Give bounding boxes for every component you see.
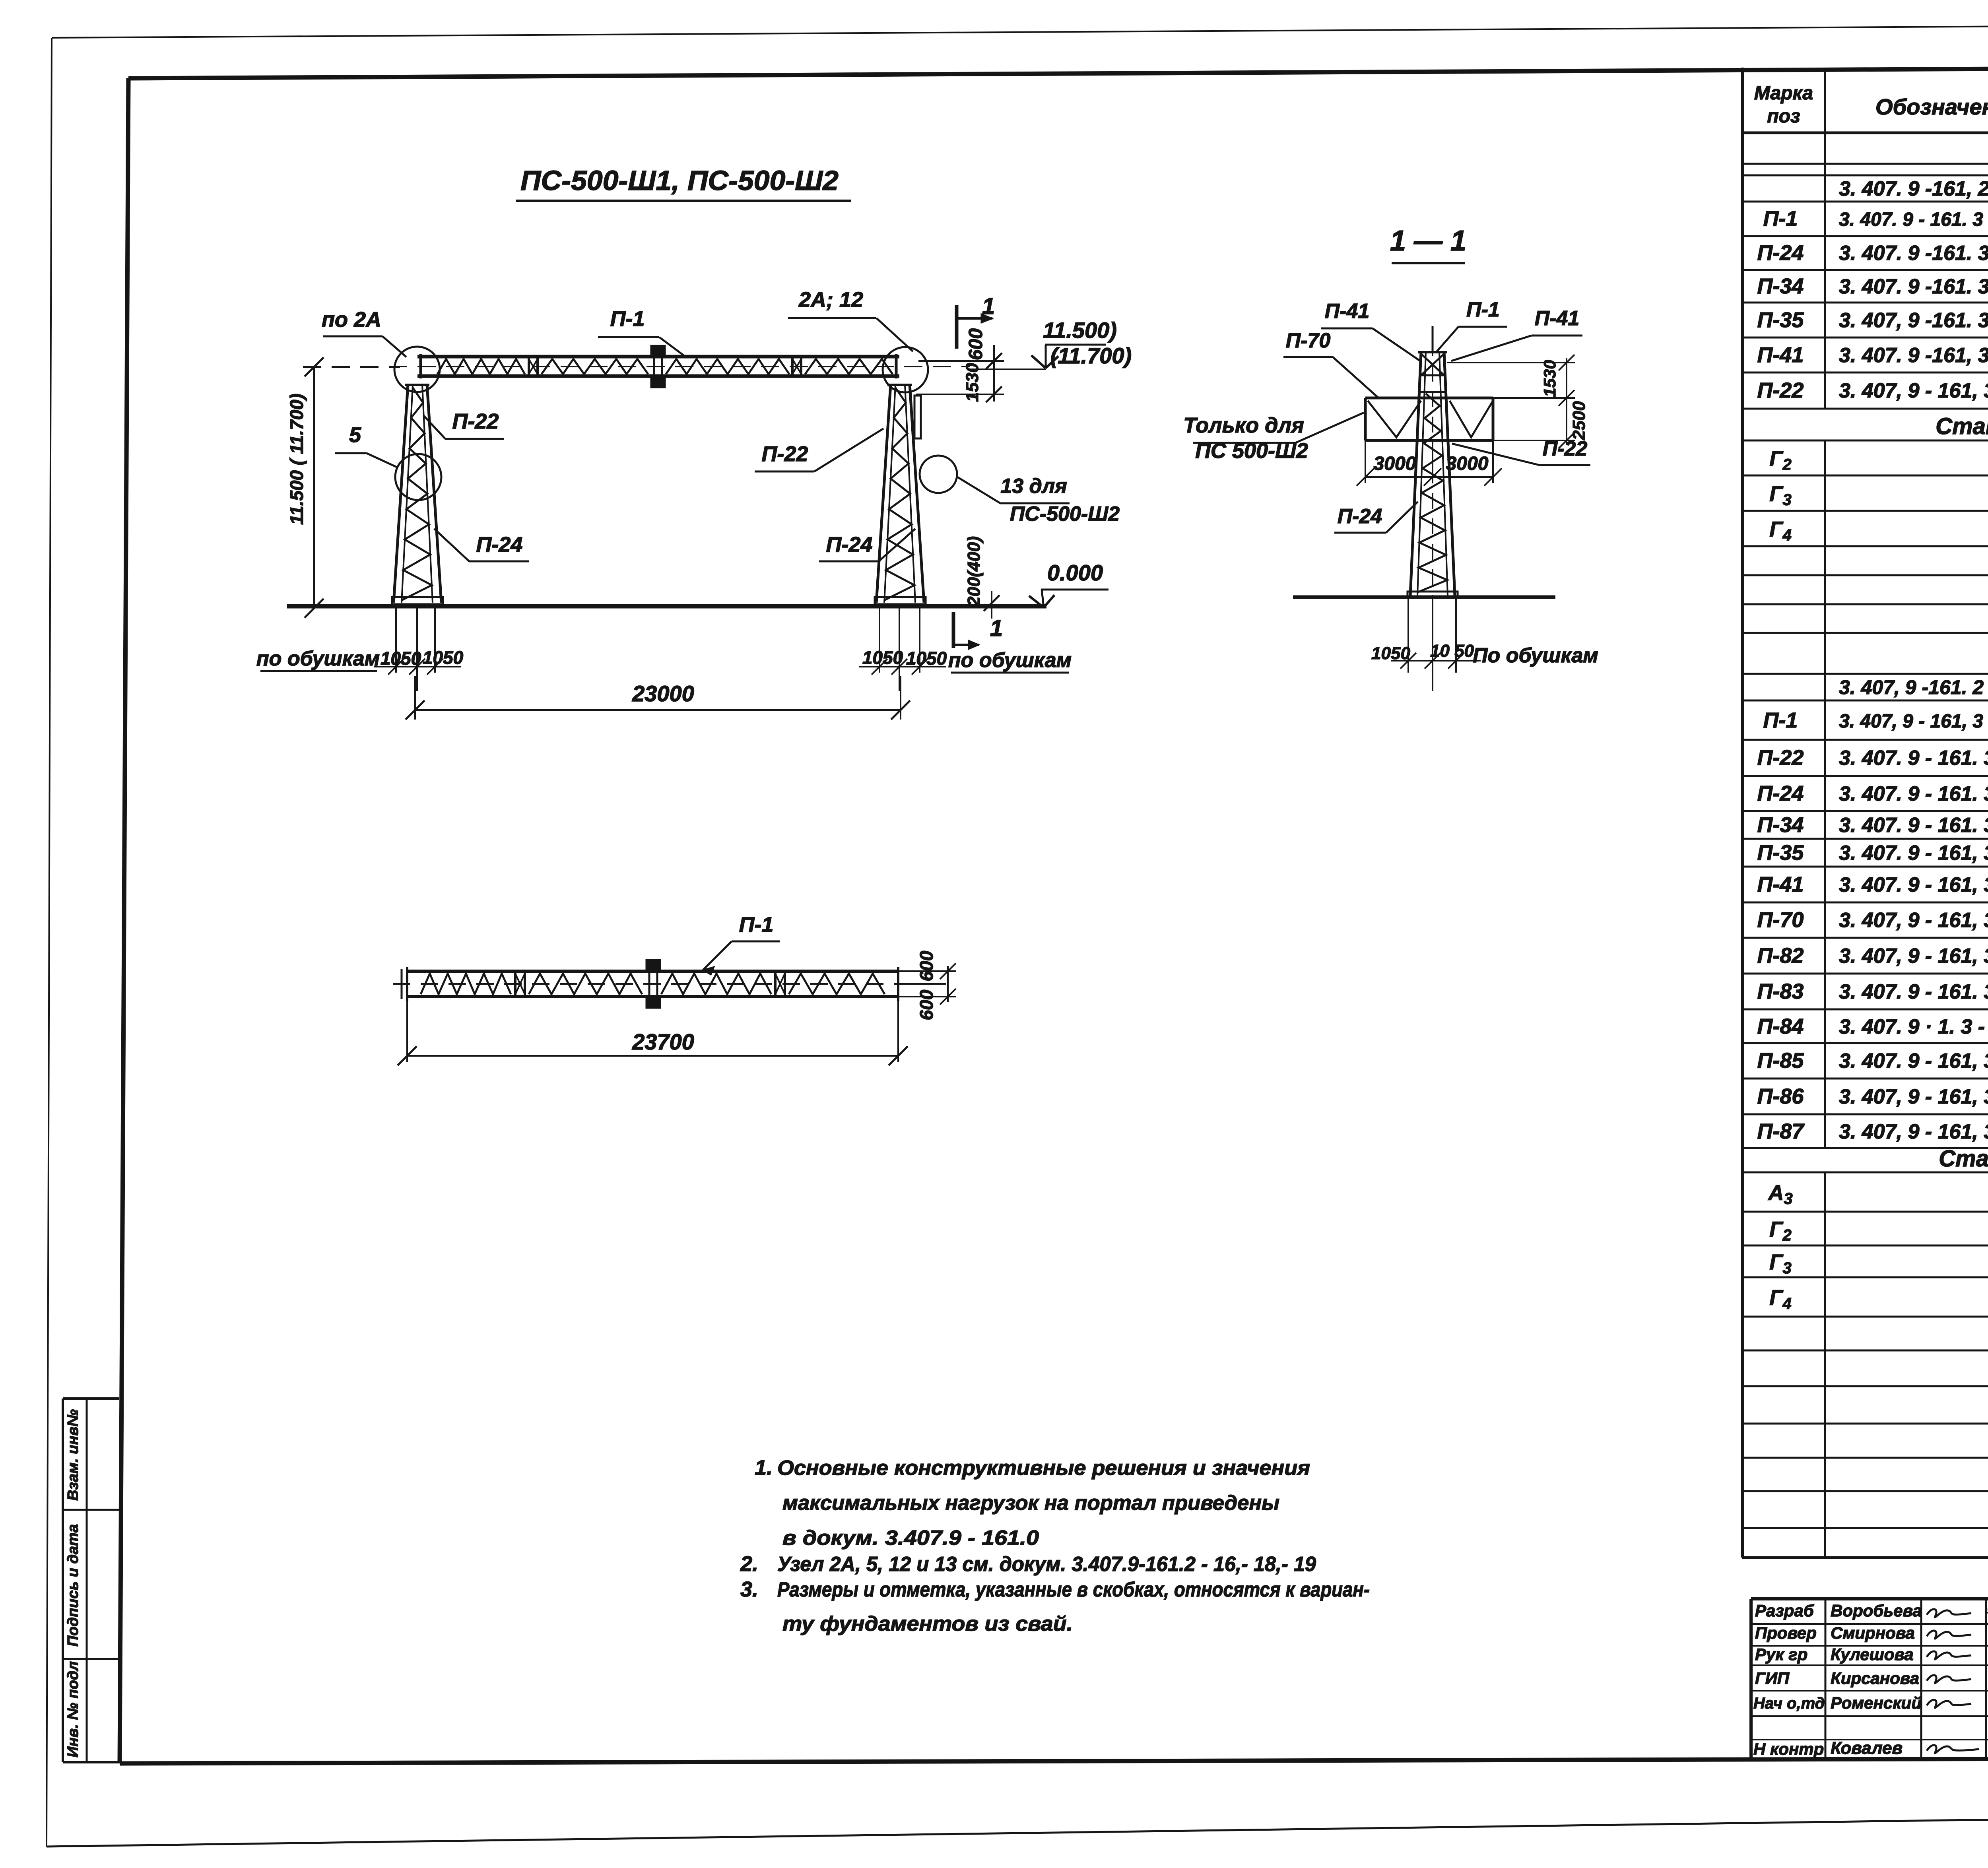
svg-text:13 для: 13 для bbox=[1000, 475, 1067, 498]
svg-text:0.000: 0.000 bbox=[1047, 560, 1103, 585]
traverse end post left bbox=[419, 354, 422, 378]
right tower left chord inner bbox=[884, 385, 895, 603]
svg-text:1: 1 bbox=[982, 293, 995, 319]
svg-text:П-41: П-41 bbox=[1757, 873, 1804, 896]
svg-text:3. 407. 9 - 161. 3 - 1КМ Л1,: 3. 407. 9 - 161. 3 - 1КМ Л1,2 bbox=[1839, 209, 1988, 230]
beam plan web zigzag 2 bbox=[529, 974, 642, 994]
svg-text:3. 407, 9 - 161, 3 - 8 КМ: 3. 407, 9 - 161, 3 - 8 КМ bbox=[1839, 379, 1988, 402]
svg-text:П-34: П-34 bbox=[1757, 813, 1804, 837]
svg-text:1050: 1050 bbox=[1371, 644, 1410, 663]
beam plan left end post bbox=[406, 967, 408, 1001]
svg-text:10 50: 10 50 bbox=[1430, 641, 1474, 661]
table vertical line col0 left edge bbox=[1741, 68, 1744, 1558]
beam plan double post A bbox=[514, 970, 516, 998]
svg-text:Г3: Г3 bbox=[1769, 482, 1791, 509]
column P-1 stub above bbox=[1432, 326, 1434, 352]
right tower base plate bbox=[875, 597, 926, 604]
svg-text:П-41: П-41 bbox=[1757, 343, 1804, 367]
traverse double post A bbox=[528, 355, 530, 378]
svg-text:П-22: П-22 bbox=[1543, 437, 1588, 460]
traverse end post right bbox=[895, 354, 898, 378]
screen P-70 top chord bbox=[1365, 397, 1493, 400]
svg-text:1 — 1: 1 — 1 bbox=[1390, 225, 1466, 257]
svg-text:А3: А3 bbox=[1767, 1181, 1792, 1208]
svg-text:3. 407, 9 - 161, 3 - 17КМ: 3. 407, 9 - 161, 3 - 17КМ bbox=[1839, 1085, 1988, 1108]
svg-text:Рук гр: Рук гр bbox=[1755, 1645, 1807, 1664]
node circle 2A right bbox=[883, 347, 928, 392]
svg-text:3. 407, 9 -161. 2 - 14 - 01: 3. 407, 9 -161. 2 - 14 - 01 bbox=[1839, 676, 1988, 698]
svg-text:Марка: Марка bbox=[1754, 83, 1813, 104]
svg-text:2.: 2. bbox=[740, 1552, 758, 1576]
svg-text:Воробьева: Воробьева bbox=[1831, 1601, 1922, 1620]
column base plate section bbox=[1408, 592, 1458, 597]
ground line section bbox=[1293, 596, 1555, 599]
svg-text:(11.700): (11.700) bbox=[1050, 343, 1132, 368]
left stamp box bbox=[63, 1397, 119, 1400]
svg-text:максимальных нагрузок на пор: максимальных нагрузок на портал приведен… bbox=[782, 1492, 1279, 1515]
dim 3000 3000 extension lines bbox=[1365, 440, 1366, 483]
left tower right chord inner bbox=[422, 385, 433, 603]
left tower footing projection lines bbox=[395, 604, 397, 673]
svg-text:1.: 1. bbox=[755, 1456, 773, 1480]
svg-text:3. 407, 9 - 161, 3 - -1КМ Л1: 3. 407, 9 - 161, 3 - -1КМ Л1,2 bbox=[1839, 711, 1988, 732]
traverse axis dashed line bbox=[303, 366, 970, 367]
right tower footing projection lines bbox=[879, 604, 880, 673]
svg-text:3000: 3000 bbox=[1374, 453, 1416, 474]
beam right dim vertical bbox=[947, 966, 949, 1002]
screen P-70 left end post bbox=[1364, 398, 1367, 440]
screen P-70 right end post bbox=[1492, 398, 1495, 440]
svg-text:3. 407. 9 -161, 2 - 14: 3. 407. 9 -161, 2 - 14 bbox=[1839, 177, 1988, 200]
beam plan centre splice bbox=[646, 960, 660, 970]
svg-text:П-22: П-22 bbox=[1757, 746, 1804, 770]
svg-text:П-22: П-22 bbox=[1757, 378, 1804, 402]
left tower cap bbox=[405, 384, 429, 386]
section mark 1 top bbox=[955, 305, 959, 349]
svg-text:23700: 23700 bbox=[632, 1029, 694, 1054]
extension lines right of traverse bbox=[918, 360, 1004, 362]
beam plan top chord bbox=[407, 970, 898, 973]
svg-text:3.: 3. bbox=[740, 1577, 758, 1601]
svg-text:П-22: П-22 bbox=[762, 442, 808, 466]
svg-text:200(400): 200(400) bbox=[964, 536, 984, 607]
svg-text:П-1: П-1 bbox=[1763, 708, 1798, 732]
svg-text:П-41: П-41 bbox=[1325, 300, 1370, 323]
column 1-1 top X brace bbox=[1421, 354, 1444, 375]
svg-text:П-24: П-24 bbox=[476, 533, 523, 557]
left tower left chord outer bbox=[394, 385, 408, 603]
svg-text:в докум. 3.407.9 - 161.0: в докум. 3.407.9 - 161.0 bbox=[782, 1527, 1039, 1550]
right tower cap bbox=[887, 384, 912, 386]
svg-text:600: 600 bbox=[916, 950, 937, 981]
traverse double post B bbox=[791, 355, 794, 378]
section footing projection lines bbox=[1408, 597, 1409, 673]
section right dim vertical bbox=[1566, 358, 1567, 445]
right tower left chord outer bbox=[876, 385, 891, 603]
svg-text:23000: 23000 bbox=[632, 681, 694, 706]
dim line po obushkam right bbox=[859, 666, 946, 667]
beam right dim extensions bbox=[898, 970, 956, 972]
column 1-1 right chord bbox=[1444, 352, 1455, 596]
svg-text:5: 5 bbox=[349, 423, 361, 447]
svg-text:П-24: П-24 bbox=[1338, 505, 1382, 528]
outer sheet border bbox=[52, 23, 1988, 38]
title block signature verticals bbox=[1825, 1599, 1827, 1759]
right tower right chord inner bbox=[905, 385, 915, 603]
node circle 13 right tower bbox=[920, 456, 957, 493]
svg-text:Узел 2А, 5, 12 и 13 см. докум: Узел 2А, 5, 12 и 13 см. докум. 3.407.9-1… bbox=[777, 1553, 1316, 1576]
svg-text:по обушкам: по обушкам bbox=[256, 647, 380, 670]
svg-text:3. 407, 9 - 161, 3 - 17КМ: 3. 407, 9 - 161, 3 - 17КМ bbox=[1839, 909, 1988, 932]
title block signature row lines bbox=[1751, 1623, 1988, 1625]
dim line 23000 bbox=[415, 709, 901, 711]
svg-text:По обушкам: По обушкам bbox=[1473, 644, 1598, 667]
traverse P-1 top chord bbox=[417, 355, 899, 359]
left tower right chord outer bbox=[427, 385, 441, 603]
section right extension lines bbox=[1447, 362, 1575, 363]
svg-text:Г2: Г2 bbox=[1769, 447, 1791, 473]
height dim line left bbox=[313, 367, 315, 608]
traverse web zigzag panel 4 bbox=[805, 359, 893, 374]
svg-text:Взам. инв№: Взам. инв№ bbox=[65, 1409, 82, 1501]
svg-text:600: 600 bbox=[965, 328, 986, 360]
svg-text:1530: 1530 bbox=[1540, 360, 1559, 397]
svg-text:Н контр: Н контр bbox=[1753, 1740, 1824, 1758]
svg-text:П-1: П-1 bbox=[1466, 298, 1500, 321]
svg-text:3. 407, 9 - 161, 3 - ' 17КМ: 3. 407, 9 - 161, 3 - ' 17КМ bbox=[1839, 945, 1988, 968]
right tower lattice bbox=[884, 388, 914, 600]
svg-text:3. 407. 9 - 161, 3 - 13 КМ: 3. 407. 9 - 161, 3 - 13 КМ bbox=[1839, 873, 1988, 896]
column 1-1 left chord bbox=[1410, 352, 1421, 596]
svg-text:11.500 ( 11.700): 11.500 ( 11.700) bbox=[286, 394, 307, 525]
column 1-1 cap bbox=[1418, 351, 1447, 353]
svg-text:Кирсанова: Кирсанова bbox=[1831, 1669, 1919, 1688]
node circle 5 left tower bbox=[395, 454, 441, 500]
table vertical line col1 bbox=[1824, 68, 1826, 409]
svg-text:ПС-500-Ш1, ПС-500-Ш2: ПС-500-Ш1, ПС-500-Ш2 bbox=[520, 165, 839, 196]
svg-text:3. 407. 9 - 161. 3 - 8 КМ: 3. 407. 9 - 161. 3 - 8 КМ bbox=[1839, 747, 1988, 770]
svg-text:ГИП: ГИП bbox=[1755, 1669, 1790, 1688]
svg-text:Смирнова: Смирнова bbox=[1831, 1624, 1915, 1642]
section dim line 1050 bbox=[1391, 660, 1481, 661]
column 1-1 right chord inner bbox=[1439, 352, 1448, 596]
svg-text:Кулешова: Кулешова bbox=[1831, 1645, 1914, 1664]
svg-text:П-84: П-84 bbox=[1757, 1015, 1804, 1038]
svg-text:Г2: Г2 bbox=[1769, 1218, 1791, 1244]
svg-text:1050: 1050 bbox=[423, 647, 464, 668]
beam plan web zigzag 1 bbox=[421, 974, 511, 994]
svg-text:Стандартные изделия: Стандартные изделия bbox=[1939, 1146, 1988, 1172]
traverse web zigzag panel 3 bbox=[666, 359, 789, 374]
dim line 23700 bbox=[407, 1055, 898, 1057]
traverse web zigzag panel 1 bbox=[437, 359, 525, 374]
svg-text:11.500): 11.500) bbox=[1043, 318, 1117, 343]
section mark 1 bottom bbox=[952, 612, 955, 648]
svg-text:П-87: П-87 bbox=[1757, 1119, 1805, 1143]
svg-text:1050: 1050 bbox=[381, 648, 421, 669]
svg-text:П-1: П-1 bbox=[1763, 207, 1798, 231]
beam plan web zigzag 3 bbox=[661, 974, 771, 994]
title block outline bbox=[1751, 1597, 1988, 1600]
svg-text:3. 407. 9 - 161. 3 - 10 КМ: 3. 407. 9 - 161. 3 - 10 КМ bbox=[1839, 782, 1988, 805]
svg-text:П-35: П-35 bbox=[1757, 841, 1804, 865]
column 1-1 lattice bbox=[1417, 394, 1447, 592]
svg-text:П-24: П-24 bbox=[826, 533, 873, 557]
svg-text:3. 407. 9 - 161, 3 - 17КМ: 3. 407. 9 - 161, 3 - 17КМ bbox=[1839, 1049, 1988, 1073]
svg-text:поз: поз bbox=[1767, 106, 1800, 127]
svg-text:3. 407. 9 -161. 3 - 13 КМ: 3. 407. 9 -161. 3 - 13 КМ bbox=[1839, 275, 1988, 298]
svg-text:П-1: П-1 bbox=[739, 913, 774, 937]
table horizontal lines bbox=[1742, 132, 1988, 134]
ground line bbox=[287, 604, 1046, 609]
svg-text:П-70: П-70 bbox=[1757, 908, 1804, 932]
beam plan axis dashed bbox=[393, 983, 911, 985]
column 1-1 left chord inner bbox=[1417, 352, 1426, 596]
svg-text:П-41: П-41 bbox=[1535, 307, 1580, 330]
svg-text:Стандартные изделия: Стандартные изделия bbox=[1936, 413, 1988, 439]
svg-text:П-24: П-24 bbox=[1757, 241, 1804, 265]
svg-text:П-85: П-85 bbox=[1757, 1049, 1804, 1073]
left tower lattice bbox=[402, 388, 432, 600]
screen P-70 left diagonals bbox=[1368, 401, 1421, 437]
svg-text:Провер: Провер bbox=[1755, 1624, 1817, 1642]
svg-text:П-34: П-34 bbox=[1757, 274, 1804, 298]
right tower bracket node 13 bbox=[914, 396, 921, 438]
svg-text:600: 600 bbox=[916, 989, 937, 1020]
left tower base plate bbox=[392, 597, 443, 604]
screen P-70 bottom chord bbox=[1365, 439, 1493, 442]
svg-text:1: 1 bbox=[990, 615, 1003, 641]
svg-text:П-70: П-70 bbox=[1286, 329, 1331, 352]
svg-text:3. 407. 9 - 161. 3 - 17КМ: 3. 407. 9 - 161. 3 - 17КМ bbox=[1839, 980, 1988, 1003]
svg-text:3. 407. 9 -161, 3 - 13 КМ: 3. 407. 9 -161, 3 - 13 КМ bbox=[1839, 344, 1988, 367]
svg-text:Нач о,тд: Нач о,тд bbox=[1753, 1695, 1825, 1712]
svg-text:3. 407. 9 - 161, 3 - 13 КМ: 3. 407. 9 - 161, 3 - 13 КМ bbox=[1839, 842, 1988, 865]
svg-text:Инв. № подл: Инв. № подл bbox=[65, 1661, 82, 1757]
dim vertical 600-1530 bbox=[993, 345, 995, 402]
beam plan right end post bbox=[897, 967, 899, 1001]
beam plan web zigzag 4 bbox=[789, 974, 885, 994]
svg-text:Г4: Г4 bbox=[1769, 518, 1791, 544]
beam plan bottom chord bbox=[407, 995, 898, 998]
node circle 2A left bbox=[394, 347, 440, 392]
svg-text:3. 407. 9 · 1. 3 - 17КМ: 3. 407. 9 · 1. 3 - 17КМ bbox=[1839, 1015, 1988, 1038]
svg-text:Г4: Г4 bbox=[1769, 1286, 1791, 1313]
svg-text:ПС 500-Ш2: ПС 500-Ш2 bbox=[1195, 439, 1308, 463]
dim line po obushkam left bbox=[374, 666, 461, 667]
dim 23700 extension lines bbox=[406, 1000, 408, 1062]
svg-text:П-82: П-82 bbox=[1757, 944, 1804, 968]
svg-text:Подпись и дата: Подпись и дата bbox=[65, 1524, 82, 1647]
dim line 3000 3000 bbox=[1365, 476, 1493, 478]
svg-text:Только для: Только для bbox=[1183, 413, 1304, 437]
svg-text:3. 407. 9 -161. 3 - 10 КМ: 3. 407. 9 -161. 3 - 10 КМ bbox=[1839, 242, 1988, 265]
svg-text:П-86: П-86 bbox=[1757, 1084, 1804, 1108]
screen P-70 right diagonals bbox=[1450, 401, 1493, 437]
svg-text:П-22: П-22 bbox=[452, 409, 499, 433]
traverse P-1 bottom chord bbox=[417, 374, 899, 378]
traverse centre splice plates bbox=[651, 346, 665, 355]
svg-text:Разраб: Разраб bbox=[1755, 1601, 1814, 1620]
svg-text:П-83: П-83 bbox=[1757, 980, 1804, 1003]
svg-text:П-24: П-24 bbox=[1757, 782, 1804, 805]
svg-text:2500: 2500 bbox=[1569, 401, 1589, 440]
traverse web zigzag panel 2 bbox=[542, 359, 648, 374]
svg-text:Роменский: Роменский bbox=[1831, 1693, 1922, 1712]
svg-text:1050: 1050 bbox=[862, 647, 903, 668]
svg-text:Размеры и отметка, указанные в: Размеры и отметка, указанные в скобках, … bbox=[777, 1578, 1370, 1601]
right tower right chord outer bbox=[910, 385, 924, 603]
svg-text:1050: 1050 bbox=[906, 648, 947, 669]
svg-text:3. 407, 9 - 161, 3 - 17КМ: 3. 407, 9 - 161, 3 - 17КМ bbox=[1839, 1120, 1988, 1143]
column 1-1 axis dashed bbox=[1432, 340, 1433, 674]
svg-text:ту фундаментов из свай.: ту фундаментов из свай. bbox=[782, 1612, 1073, 1635]
svg-text:П-35: П-35 bbox=[1757, 308, 1804, 332]
svg-text:П-1: П-1 bbox=[610, 307, 645, 331]
svg-text:Обозначение .: Обозначение . bbox=[1875, 94, 1988, 119]
svg-text:3000: 3000 bbox=[1446, 453, 1489, 474]
inner drawing frame bbox=[128, 66, 1988, 78]
svg-text:по 2А: по 2А bbox=[322, 308, 381, 332]
svg-text:2А; 12: 2А; 12 bbox=[798, 288, 863, 312]
svg-text:3. 407. 9 - 161. 3 - 13 КМ: 3. 407. 9 - 161. 3 - 13 КМ bbox=[1839, 814, 1988, 837]
left tower left chord inner bbox=[402, 385, 413, 603]
svg-text:по обушкам: по обушкам bbox=[948, 649, 1072, 672]
svg-text:Основные конструктивные реше: Основные конструктивные решения и значен… bbox=[777, 1457, 1310, 1480]
svg-text:Г3: Г3 bbox=[1769, 1250, 1791, 1277]
beam plan double post B bbox=[774, 970, 777, 998]
svg-text:Ковалев: Ковалев bbox=[1831, 1738, 1903, 1758]
svg-text:ПС-500-Ш2: ПС-500-Ш2 bbox=[1010, 502, 1120, 526]
svg-text:3. 407, 9 -161. 3 - 13 КМ: 3. 407, 9 -161. 3 - 13 КМ bbox=[1839, 309, 1988, 332]
